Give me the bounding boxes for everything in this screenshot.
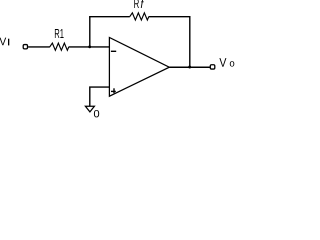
node Vo label (219, 58, 234, 67)
junction feedback tap node (88, 45, 91, 48)
wire R1 to op-amp inverting input (69, 46, 110, 48)
label 0 ground net (94, 110, 99, 117)
ground symbol (85, 106, 94, 112)
op-amp U1 triangle (109, 38, 169, 97)
node Vi label (0, 38, 9, 46)
junction output node (188, 66, 191, 69)
wire top horizontal left segment (89, 16, 130, 18)
wire feedback right vertical (189, 17, 191, 68)
resistor Rf (130, 13, 149, 20)
wire op-amp output (169, 66, 210, 68)
label Rf (134, 0, 144, 8)
wire non-inverting input to ground corner (90, 87, 110, 106)
op-amp plus input marker (111, 88, 116, 93)
terminal input Vi (23, 45, 27, 49)
wire top horizontal right segment (149, 16, 191, 18)
label R1 (55, 29, 64, 38)
op-amp minus input marker (111, 50, 116, 52)
wire input terminal to R1 (28, 46, 50, 48)
resistor R1 (50, 43, 69, 50)
wire feedback left vertical (89, 17, 91, 47)
terminal output Vo (210, 65, 215, 69)
